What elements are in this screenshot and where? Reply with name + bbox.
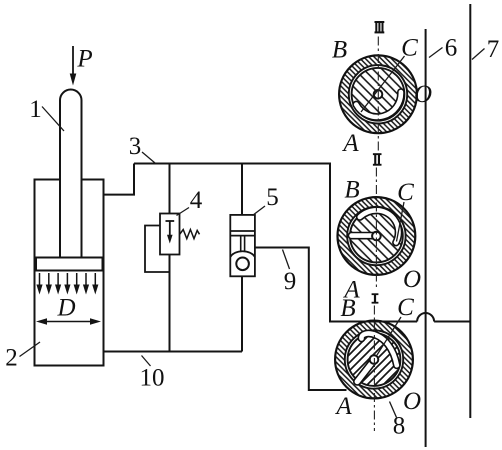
svg-text:9: 9 (284, 268, 297, 295)
svg-text:O: O (403, 266, 421, 293)
svg-text:C: C (397, 179, 414, 206)
svg-text:C: C (397, 294, 414, 321)
svg-text:C: C (401, 35, 418, 62)
svg-text:D: D (56, 295, 75, 322)
svg-text:B: B (332, 37, 347, 64)
svg-text:A: A (341, 130, 359, 157)
svg-text:O: O (414, 81, 432, 108)
svg-text:5: 5 (266, 184, 279, 211)
svg-text:8: 8 (393, 413, 406, 440)
svg-text:4: 4 (190, 187, 203, 214)
svg-text:10: 10 (140, 365, 165, 392)
svg-text:P: P (76, 46, 92, 73)
svg-text:O: O (403, 388, 421, 415)
svg-text:3: 3 (129, 133, 142, 160)
svg-text:1: 1 (29, 96, 42, 123)
svg-text:7: 7 (487, 36, 500, 63)
svg-text:6: 6 (445, 35, 458, 62)
svg-text:A: A (334, 393, 352, 420)
svg-text:2: 2 (5, 345, 18, 372)
svg-text:B: B (340, 295, 355, 322)
svg-text:B: B (344, 177, 359, 204)
